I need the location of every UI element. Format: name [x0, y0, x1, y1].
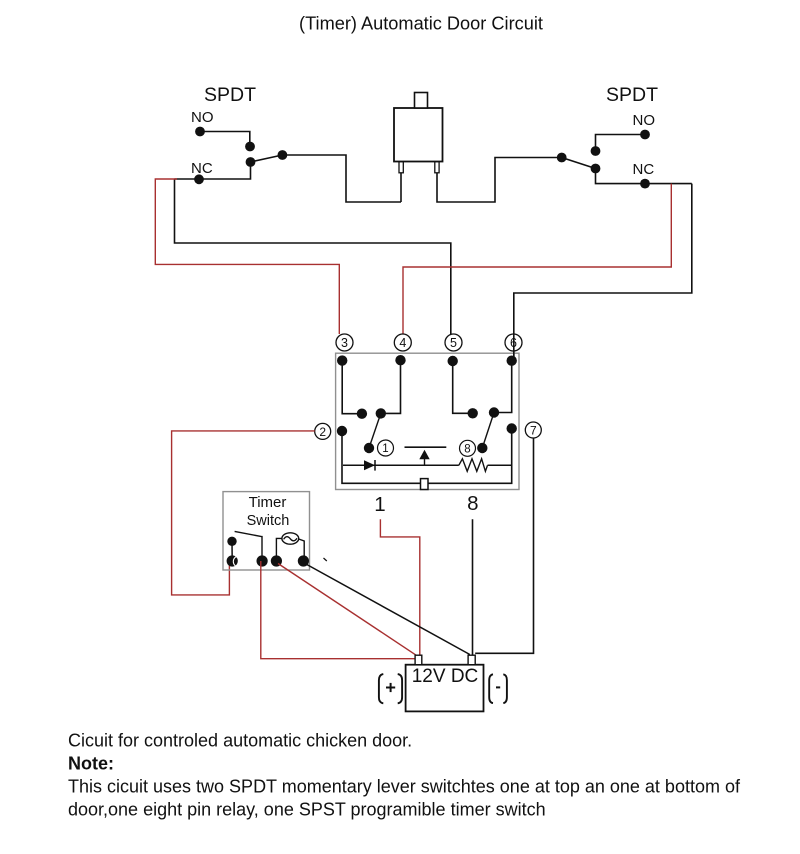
relay left pole pin4 branch — [381, 360, 401, 413]
S2 common contact dot — [591, 164, 601, 174]
relay pin 1 circle — [378, 440, 394, 456]
svg-text:NC: NC — [633, 161, 655, 178]
svg-text:NO: NO — [633, 112, 656, 129]
timer switch box — [223, 492, 310, 570]
wire black timer t4 diagonal to battery minus — [305, 564, 470, 655]
svg-text:SPDT: SPDT — [606, 84, 658, 106]
S2 lever — [562, 158, 596, 169]
timer terminal dot 1 — [227, 555, 238, 566]
relay coil line — [343, 464, 459, 466]
relay right armature lever — [482, 413, 494, 449]
timer terminal dot 4 — [298, 555, 309, 566]
relay right NC contact dot — [468, 408, 478, 418]
S1 NO terminal dot — [195, 127, 205, 137]
relay pin4 dot — [395, 355, 405, 365]
svg-text:SPDT: SPDT — [204, 84, 256, 106]
relay coil resistor — [459, 459, 488, 472]
timer pole link — [231, 541, 233, 561]
relay pin6 dot — [507, 356, 517, 366]
wire black relay terminal 8 to battery minus — [472, 519, 474, 655]
relay left pole pin3 branch — [342, 361, 362, 414]
timer clock motor circle — [282, 533, 299, 544]
relay right pole pin5 branch — [453, 361, 473, 413]
relay pin 7 circle — [525, 422, 541, 438]
relay right pole pin6 branch — [494, 361, 512, 413]
timer clock left lead — [276, 538, 282, 561]
svg-text:Switch: Switch — [247, 513, 290, 529]
relay pin1 common dot — [364, 443, 374, 453]
wire red S1 NC to relay pin3 — [155, 179, 339, 334]
wire red timer t3 diagonal to battery plus — [278, 564, 417, 656]
relay pin3 dot — [337, 355, 347, 365]
svg-text:1: 1 — [382, 443, 388, 455]
motor M1 body — [394, 108, 443, 162]
battery plus bracket — [379, 674, 383, 703]
svg-text:3: 3 — [341, 336, 348, 350]
wire red S2 NC to relay pin4 — [403, 184, 671, 334]
wire black S1 NC to relay pin5 — [175, 179, 451, 334]
wire S2 NC terminal — [596, 169, 692, 184]
relay armature bar — [405, 446, 447, 448]
svg-text:8: 8 — [467, 492, 478, 515]
svg-text:This cicuit uses two SPDT mome: This cicuit uses two SPDT momentary leve… — [68, 777, 741, 797]
relay left armature lever — [369, 413, 381, 448]
svg-text:2: 2 — [319, 425, 326, 439]
wire black S2 NC to relay pin6 — [514, 184, 692, 361]
S2 NC terminal dot — [640, 179, 650, 189]
timer terminal dot 2 — [257, 555, 268, 566]
wire motor right leg to S2 lever — [437, 158, 562, 203]
svg-text:1: 1 — [374, 493, 385, 516]
motor M1 left leg — [399, 162, 403, 173]
relay K1 outline box — [336, 353, 519, 489]
svg-text:NC: NC — [191, 160, 213, 177]
S1 lever end dot — [278, 150, 288, 160]
svg-text:(Timer) Automatic Door Circuit: (Timer) Automatic Door Circuit — [299, 14, 543, 34]
S1 NC terminal dot — [194, 174, 204, 184]
relay pin 2 circle — [315, 423, 331, 439]
relay pin 3 circle — [336, 334, 353, 351]
svg-text:5: 5 — [450, 336, 457, 350]
relay pin 8 circle — [460, 440, 476, 456]
wire red relay pin2 to timer — [172, 431, 315, 595]
wire S1 NC terminal — [175, 162, 251, 179]
svg-text:Cicuit for controled automatic: Cicuit for controled automatic chicken d… — [68, 731, 412, 751]
S1 NO contact dot — [245, 142, 255, 152]
relay coil diode — [364, 460, 375, 470]
svg-text:Timer: Timer — [249, 494, 287, 511]
wire black relay pin7 to battery minus — [475, 438, 533, 653]
relay pin 5 circle — [445, 334, 462, 351]
battery minus terminal tab — [468, 655, 475, 665]
svg-text:12V DC: 12V DC — [412, 666, 479, 687]
svg-text:4: 4 — [399, 336, 406, 350]
relay socket key notch — [421, 479, 429, 490]
stray tick mark — [324, 558, 327, 561]
relay pin5 dot — [448, 356, 458, 366]
wire maroon relay terminal 1 to battery plus — [380, 519, 419, 655]
relay pin 4 circle — [394, 334, 411, 351]
wire red timer t2 to battery plus — [261, 561, 415, 659]
wire S2 NO to throw — [596, 135, 646, 152]
timer clock right lead — [299, 539, 305, 561]
battery B1 box — [406, 665, 484, 712]
relay pin 6 circle — [505, 334, 522, 351]
S2 NO contact dot — [591, 146, 601, 156]
svg-text:Note:: Note: — [68, 754, 114, 774]
svg-text:8: 8 — [464, 444, 470, 456]
relay right NO contact dot — [489, 407, 499, 417]
S2 NO terminal dot — [640, 130, 650, 140]
svg-text:7: 7 — [530, 424, 537, 438]
relay pin8 common dot — [477, 443, 487, 453]
relay pin2 to bottom rail — [342, 429, 512, 484]
S2 lever end dot — [557, 153, 567, 163]
relay pin7 dot — [507, 423, 517, 433]
timer lever — [235, 531, 262, 561]
svg-text:NO: NO — [191, 109, 214, 126]
svg-text:6: 6 — [510, 336, 517, 350]
motor M1 top boss — [415, 93, 428, 109]
relay left NO contact dot — [376, 408, 386, 418]
motor M1 right leg — [435, 162, 439, 173]
wire motor left leg down — [400, 173, 402, 202]
relay left NC contact dot — [357, 409, 367, 419]
timer upper pole dot — [227, 537, 236, 546]
battery plus terminal tab — [415, 655, 422, 665]
timer terminal dot 3 — [271, 555, 282, 566]
relay armature arrow — [419, 450, 429, 459]
svg-text:door,one eight pin relay, one: door,one eight pin relay, one SPST progr… — [68, 800, 546, 820]
relay pin2 dot — [337, 426, 347, 436]
S1 common contact dot — [246, 157, 256, 167]
wire S1 common to motor left — [282, 155, 401, 202]
S1 lever — [251, 155, 283, 162]
wire S1 NO to throw — [200, 132, 250, 147]
battery minus bracket — [489, 674, 493, 703]
